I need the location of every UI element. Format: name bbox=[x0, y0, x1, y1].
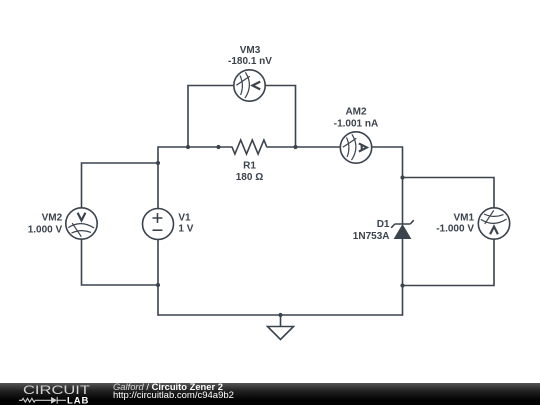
wire AM2 to right corner bbox=[372, 147, 403, 224]
node at 295.5,147 bbox=[293, 145, 297, 149]
svg-text:VM2: VM2 bbox=[42, 213, 63, 224]
node at 188,147 bbox=[186, 145, 190, 149]
svg-text:1.000 V: 1.000 V bbox=[28, 224, 63, 235]
wire VM2 bottom link bbox=[82, 239, 159, 285]
svg-text:D1: D1 bbox=[377, 219, 392, 230]
wire VM3 right branch bbox=[265, 86, 295, 148]
voltmeter VM1 bbox=[478, 208, 509, 239]
svg-text:180 Ω: 180 Ω bbox=[236, 172, 263, 183]
node at 402.5,285.5 bbox=[400, 283, 404, 287]
wire VM3 left branch bbox=[188, 86, 234, 148]
voltage source V1 bbox=[143, 209, 174, 240]
svg-text:-180.1 nV: -180.1 nV bbox=[228, 56, 272, 67]
svg-text:1 V: 1 V bbox=[178, 224, 193, 235]
wire R1 to AM2 bbox=[267, 146, 340, 148]
svg-text:LAB: LAB bbox=[67, 396, 89, 405]
wire VM2 top link bbox=[82, 163, 159, 208]
ammeter AM2 bbox=[340, 132, 371, 163]
voltmeter VM2 bbox=[66, 208, 97, 239]
zener diode D1 bbox=[391, 220, 414, 238]
wire VM1 bottom link bbox=[403, 239, 495, 285]
wire bottom bbox=[158, 314, 403, 316]
node at 218.5,147 bbox=[216, 145, 220, 149]
resistor R1 bbox=[232, 140, 267, 154]
wire VM1 top link bbox=[403, 178, 495, 208]
svg-text:AM2: AM2 bbox=[345, 107, 367, 118]
node at 158,163 bbox=[156, 161, 160, 165]
node at 158,285 bbox=[156, 283, 160, 287]
svg-text:VM3: VM3 bbox=[240, 45, 261, 56]
svg-text:R1: R1 bbox=[243, 161, 256, 172]
svg-text:VM1: VM1 bbox=[453, 213, 474, 224]
wire V1 bottom to corner bbox=[157, 240, 159, 316]
voltmeter VM3 bbox=[234, 70, 265, 101]
svg-text:V1: V1 bbox=[178, 213, 191, 224]
wire top-left bbox=[158, 147, 232, 163]
ground bbox=[268, 315, 294, 340]
svg-text:1N753A: 1N753A bbox=[353, 231, 392, 242]
svg-text:-1.001 nA: -1.001 nA bbox=[334, 118, 378, 129]
ground node bbox=[278, 313, 282, 317]
wire V1 top bbox=[157, 163, 159, 209]
node at 402.5,177.5 bbox=[400, 175, 404, 179]
wire D1 to bottom corner bbox=[402, 239, 404, 316]
svg-text:-1.000 V: -1.000 V bbox=[436, 224, 474, 235]
